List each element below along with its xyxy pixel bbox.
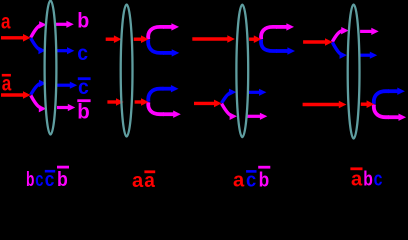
state label a cbar bbar <box>233 167 270 191</box>
label b (magenta) <box>77 10 89 33</box>
svg-text:a: a <box>351 169 363 191</box>
arrow a (top, red, into fork) <box>303 38 333 46</box>
arrow a into membrane (top, red, long) <box>192 35 235 43</box>
arrow out to cbar (blue) <box>57 82 77 89</box>
fork arm abar->cbar (blue arc up to membrane) <box>31 80 47 95</box>
split arm a->c (blue, bottom-right cup) <box>261 39 295 54</box>
arrow out to bbar (magenta) <box>247 113 267 120</box>
arrow out to c (blue, right of membrane) <box>56 47 74 54</box>
fork arm a->c (blue arc to membrane) <box>31 38 46 54</box>
fork arm a->b (magenta arc to membrane) <box>31 21 47 37</box>
svg-text:a: a <box>1 11 11 34</box>
arrow out of membrane (bottom, red) <box>135 98 149 106</box>
svg-text:c: c <box>35 169 43 191</box>
label abar (input letter, red with overbar) <box>2 73 12 96</box>
arrow out to cbar (blue) <box>249 89 266 96</box>
svg-text:c: c <box>246 170 256 192</box>
svg-text:b: b <box>77 100 90 123</box>
svg-text:a: a <box>132 170 144 191</box>
split arm a->c (blue, bottom-right cup) <box>148 39 179 56</box>
label bbar (magenta with overbar) <box>77 100 90 123</box>
split arm abar->bbar (magenta, bottom-right cup) <box>148 102 181 118</box>
label cbar (blue with overbar) <box>78 76 91 99</box>
label c (blue) <box>77 42 88 65</box>
svg-text:c: c <box>77 42 88 65</box>
arrow abar (red, into fork) <box>1 91 31 99</box>
split arm abar->bbar (magenta, bottom-right cup) <box>374 104 406 121</box>
arrow abar (bottom, red, into fork) <box>194 100 222 108</box>
svg-text:b: b <box>259 170 270 192</box>
svg-text:a: a <box>233 170 245 192</box>
membrane ellipse 1 <box>45 1 57 135</box>
split arm a->b (magenta, top-right cup) <box>261 23 294 39</box>
arrow out of membrane (top, red) <box>134 35 149 43</box>
state label abar b c <box>350 169 382 191</box>
svg-text:b: b <box>363 169 373 191</box>
membrane ellipse 3 <box>236 5 248 137</box>
arrow a (red, into fork) <box>1 34 31 42</box>
split arm abar->cbar (blue, top-right cup) <box>374 88 405 105</box>
arrow abar into membrane (bottom, red, long) <box>303 101 347 109</box>
fork arm abar->bbar (magenta arc down to membrane) <box>222 104 237 120</box>
state label b c cbar bbar <box>26 167 69 191</box>
svg-text:c: c <box>374 169 383 191</box>
svg-text:b: b <box>77 10 89 33</box>
split arm a->b (magenta, top-right cup) <box>148 23 179 39</box>
arrow out to bbar (magenta) <box>57 104 75 111</box>
svg-text:b: b <box>57 169 68 191</box>
split arm abar->cbar (blue, top-right cup) <box>148 85 178 102</box>
fork arm a->c (blue arc down to membrane) <box>332 42 347 59</box>
arrow abar out of membrane (bottom, red) <box>361 100 374 108</box>
arrow out to b (magenta, right of membrane) <box>360 28 379 35</box>
svg-text:b: b <box>26 169 34 191</box>
arrow into membrane (top, red) <box>106 35 122 43</box>
fork arm abar->cbar (blue arc up to membrane) <box>222 89 237 104</box>
arrow out to b (magenta, right of membrane) <box>56 21 74 28</box>
arrow a out of membrane (top, red) <box>249 35 261 43</box>
membrane ellipse 4 <box>348 5 360 139</box>
fork arm abar->bbar (magenta arc down to membrane) <box>31 95 46 112</box>
fork arm a->b (magenta arc up to membrane) <box>332 27 348 42</box>
membrane ellipse 2 <box>121 5 133 137</box>
label a (input letter, red) <box>1 11 11 34</box>
state label a abar <box>132 170 156 192</box>
arrow out to c (blue, right of membrane) <box>360 52 377 59</box>
arrow into membrane (bottom, red) <box>107 98 123 106</box>
